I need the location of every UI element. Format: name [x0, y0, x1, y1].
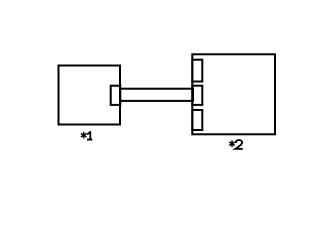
- device box 1 (left unit): [59, 66, 121, 125]
- device box 2 (right unit): [192, 54, 275, 134]
- cable: [120, 89, 193, 101]
- port 2 on device 2 (cable socket): [192, 86, 202, 105]
- label *2: [229, 140, 243, 149]
- port 1 on device 2: [192, 60, 202, 82]
- connector plug on device 1: [111, 86, 121, 105]
- port 3 on device 2: [192, 110, 202, 130]
- label *1: [81, 131, 92, 139]
